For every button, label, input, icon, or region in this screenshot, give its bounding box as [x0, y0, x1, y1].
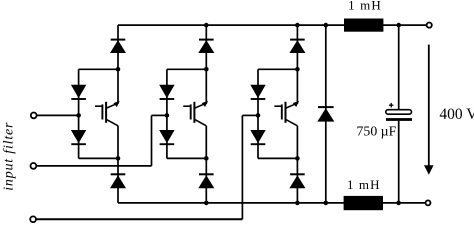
capacitor C1 polarity + sign [389, 104, 394, 106]
svg-text:400 V: 400 V [439, 106, 474, 123]
inductor L1 (1 mH, DC+ output) [344, 19, 383, 32]
terminal: phase C input [30, 216, 36, 222]
junction: leg3 on bottom rail [295, 201, 300, 206]
terminal: phase A input [31, 113, 37, 119]
wire: phase C horizontal [36, 218, 242, 220]
wire: leg1 left branch vertical [78, 69, 80, 158]
diode D3t (leg3 top, to DC+ rail) [290, 39, 305, 41]
capacitor C1 negative plate [386, 118, 412, 121]
wire: phase C vertical jog [241, 115, 243, 219]
arrow: 400 V output voltage indicator [428, 45, 430, 167]
wire: leg1 collector node to left branch [79, 68, 118, 70]
junction: leg2 on top rail [204, 23, 209, 28]
diode D3b (leg3 left lower) [250, 130, 265, 143]
junction: capacitor on top rail [396, 23, 401, 28]
terminal: DC+ output [427, 23, 432, 28]
bottom DC- rail wire [118, 202, 425, 204]
svg-text:input filter: input filter [2, 122, 17, 191]
transistor Q2 emitter diagonal [194, 119, 206, 126]
node: leg1 emitter junction [116, 156, 121, 161]
wire: leg3 collector node to left branch [258, 68, 297, 70]
node: leg1 phase connection junction [76, 113, 81, 118]
wire: phase A line [37, 114, 79, 116]
inductor L2 (1 mH, DC- output) [344, 196, 383, 210]
junction: freewheel branch on top rail [324, 23, 329, 28]
wire: phase B to leg2 junction [152, 114, 167, 116]
wire: leg3 bottom wire to emitter node [258, 157, 297, 159]
transistor Q3 emitter diagonal [286, 119, 298, 126]
diode D3d (leg3 bottom, to DC- rail) [290, 173, 305, 175]
diode D2a (leg2 left upper) [159, 85, 174, 98]
transistor Q2 collector diagonal with arrow [195, 104, 204, 108]
diode D1t (leg1 top, to DC+ rail) [111, 39, 126, 41]
diode D2t (leg2 top, to DC+ rail) [199, 39, 214, 41]
wire: leg2 emitter lead down [205, 126, 207, 159]
node: leg2 emitter junction [204, 156, 209, 161]
wire: leg3 left branch vertical [257, 69, 259, 158]
transistor Q2 (IGBT) gate lead [183, 105, 190, 107]
wire: leg3 emitter lead down [296, 126, 298, 159]
transistor Q2 gate bar [190, 104, 192, 119]
node: leg2 collector junction [204, 67, 209, 72]
svg-text:750 µF: 750 µF [357, 123, 397, 138]
wire: leg2 bottom wire to emitter node [167, 157, 206, 159]
wire: phase B vertical jog [151, 115, 153, 165]
diode D1a (leg1 left upper) [71, 85, 86, 98]
terminal: phase B input [31, 163, 37, 169]
wire: phase C to leg3 junction [242, 114, 258, 116]
transistor Q1 gate bar [101, 104, 103, 119]
transistor Q3 collector diagonal with arrow [286, 104, 295, 108]
svg-text:1 mH: 1 mH [347, 177, 381, 192]
junction: capacitor on bottom rail [396, 201, 401, 206]
diode D2d (leg2 bottom, to DC- rail) [199, 173, 214, 175]
transistor Q2 body bar [193, 102, 195, 123]
wire: leg2 left branch vertical [166, 69, 168, 158]
diode D2b (leg2 left lower) [159, 130, 174, 143]
wire: freewheel diode branch vertical [325, 25, 327, 203]
diode D1d (leg1 bottom, to DC- rail) [111, 173, 126, 175]
node: leg2 phase connection junction [165, 113, 170, 118]
wire: leg1 top lead (rail to anode node) [117, 25, 119, 69]
transistor Q1 body bar [105, 102, 107, 123]
node: leg1 collector junction [116, 67, 121, 72]
node: leg3 phase connection junction [256, 113, 261, 118]
wire: leg1 bottom diode lead to rail [117, 158, 119, 203]
terminal: DC- output [426, 200, 431, 205]
wire: leg2 bottom diode lead to rail [205, 158, 207, 203]
wire: leg3 top lead (rail to anode node) [296, 25, 298, 69]
wire: leg2 top lead (rail to anode node) [205, 25, 207, 69]
junction: leg3 on top rail [295, 23, 300, 28]
node: leg3 collector junction [295, 67, 300, 72]
wire: phase B horizontal [37, 165, 152, 167]
diode D1b (leg1 left lower) [71, 130, 86, 143]
wire: leg3 bottom diode lead to rail [296, 158, 298, 203]
wire: leg2 collector node to left branch [167, 68, 206, 70]
svg-text:1 mH: 1 mH [348, 0, 382, 12]
junction: freewheel branch on bottom rail [324, 201, 329, 206]
diode D3a (leg3 left upper) [250, 85, 265, 98]
top DC+ rail wire [118, 24, 427, 26]
transistor Q3 (IGBT) gate lead [274, 105, 281, 107]
transistor Q3 collector lead wire [296, 69, 298, 104]
wire: leg1 bottom wire to emitter node [79, 157, 118, 159]
transistor Q3 gate bar [281, 104, 283, 119]
junction: leg2 on bottom rail [204, 201, 209, 206]
transistor Q1 emitter diagonal [106, 119, 118, 126]
transistor Q1 collector lead wire [117, 69, 119, 104]
node: leg3 emitter junction [295, 156, 300, 161]
capacitor C1 positive plate [386, 110, 412, 115]
transistor Q3 body bar [285, 102, 287, 123]
transistor Q1 (IGBT) gate lead [95, 105, 102, 107]
wire: capacitor top lead [398, 25, 400, 110]
wire: leg1 emitter lead down [117, 126, 119, 159]
diode Df (freewheeling, across DC link) [318, 106, 334, 108]
transistor Q2 collector lead wire [205, 69, 207, 104]
transistor Q1 collector diagonal with arrow [106, 104, 115, 108]
wire: capacitor bottom lead [398, 121, 400, 203]
